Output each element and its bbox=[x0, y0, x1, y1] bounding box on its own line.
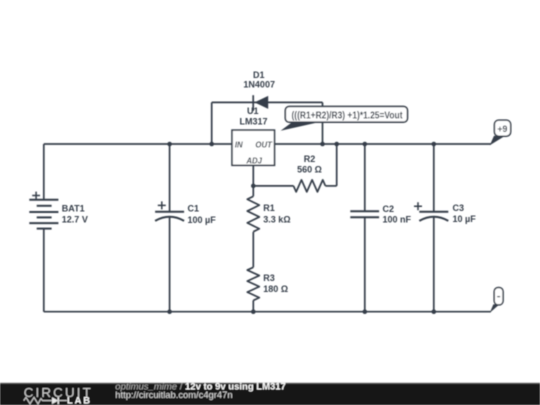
capacitor C1 bbox=[155, 201, 216, 224]
wire C3 top lead bbox=[433, 144, 435, 212]
CircuitLab logo bbox=[24, 385, 93, 405]
wire diode branch right drop bbox=[322, 102, 324, 144]
footer title text bbox=[115, 382, 286, 400]
junction C1 bottom rail bbox=[167, 309, 172, 314]
wire bottom rail bbox=[44, 311, 491, 313]
junction ADJ / R1 / R2 node bbox=[251, 184, 256, 189]
battery BAT1 bbox=[29, 192, 88, 229]
wire R3 bottom lead bbox=[252, 300, 254, 311]
wire top rail IN side bbox=[44, 143, 232, 145]
svg-text:C2: C2 bbox=[383, 204, 395, 214]
resistor R3 bbox=[247, 267, 288, 300]
junction C2 bottom rail bbox=[363, 309, 368, 314]
svg-text:1N4007: 1N4007 bbox=[243, 80, 275, 90]
wire battery bottom to rail bbox=[43, 229, 45, 312]
junction C3 bottom rail bbox=[432, 309, 437, 314]
IC U1 LM317 voltage regulator bbox=[232, 106, 275, 165]
wire R2 left lead bbox=[253, 185, 293, 187]
svg-text:OUT: OUT bbox=[255, 141, 273, 150]
svg-text:ADJ: ADJ bbox=[245, 157, 262, 166]
wire R2 right lead bbox=[325, 185, 336, 187]
capacitor C3 bbox=[414, 202, 476, 224]
annotation callout (((R1+R2)/R3) +1)*1.25=Vout bbox=[281, 106, 408, 130]
svg-text:3.3 kΩ: 3.3 kΩ bbox=[263, 214, 290, 224]
junction R3 bottom rail bbox=[251, 309, 256, 314]
svg-text:C1: C1 bbox=[188, 204, 200, 214]
wire R2 right vertical up to rail bbox=[336, 144, 338, 186]
resistor R1 bbox=[247, 196, 290, 231]
svg-text:BAT1: BAT1 bbox=[62, 203, 85, 213]
svg-text:+9: +9 bbox=[497, 124, 507, 134]
junction C2 top rail bbox=[363, 142, 368, 147]
svg-text:12.7 V: 12.7 V bbox=[62, 215, 88, 225]
junction C1 top rail bbox=[167, 142, 172, 147]
junction diode branch right at OUT rail bbox=[320, 142, 325, 147]
wire ADJ pin down bbox=[252, 165, 254, 196]
svg-text:D1: D1 bbox=[253, 70, 265, 80]
wire OUT rail bbox=[275, 143, 491, 145]
junction R2 branch at OUT rail bbox=[334, 142, 339, 147]
wire C2 bottom lead bbox=[364, 217, 366, 312]
wire diode branch left drop bbox=[211, 102, 213, 144]
wire between R1 and R3 bbox=[252, 232, 254, 267]
capacitor C2 bbox=[350, 204, 411, 225]
svg-text:(((R1+R2)/R3) +1)*1.25=Vout: (((R1+R2)/R3) +1)*1.25=Vout bbox=[292, 111, 404, 122]
svg-text:R3: R3 bbox=[263, 273, 275, 283]
svg-text:C3: C3 bbox=[453, 203, 465, 213]
svg-text:100 µF: 100 µF bbox=[188, 215, 217, 225]
resistor R2 bbox=[294, 154, 326, 192]
svg-text:180 Ω: 180 Ω bbox=[263, 284, 288, 294]
svg-text:100 nF: 100 nF bbox=[383, 214, 412, 224]
wire C1 bottom lead bbox=[169, 217, 171, 312]
svg-text:R2: R2 bbox=[304, 154, 316, 164]
svg-text:IN: IN bbox=[235, 141, 243, 150]
node - flag bbox=[490, 288, 503, 313]
svg-text:LAB: LAB bbox=[67, 396, 92, 405]
diode D1 bbox=[243, 70, 275, 111]
wire left vertical top (rail to battery) bbox=[43, 144, 45, 200]
svg-text:LM317: LM317 bbox=[239, 117, 267, 127]
svg-text:560 Ω: 560 Ω bbox=[297, 164, 322, 174]
svg-text:10 µF: 10 µF bbox=[453, 214, 477, 224]
junction diode branch left at IN rail bbox=[209, 142, 214, 147]
svg-text:R1: R1 bbox=[263, 203, 275, 213]
junction C3 top rail bbox=[432, 142, 437, 147]
svg-text:http://circuitlab.com/c4gr47n: http://circuitlab.com/c4gr47n bbox=[115, 389, 232, 400]
node +9 flag bbox=[490, 120, 511, 145]
wire C2 top lead bbox=[364, 144, 366, 211]
wire diode branch top bbox=[212, 101, 323, 103]
wire C1 top lead bbox=[169, 144, 171, 212]
footer bar bbox=[0, 383, 540, 405]
wire C3 bottom lead bbox=[433, 217, 435, 312]
